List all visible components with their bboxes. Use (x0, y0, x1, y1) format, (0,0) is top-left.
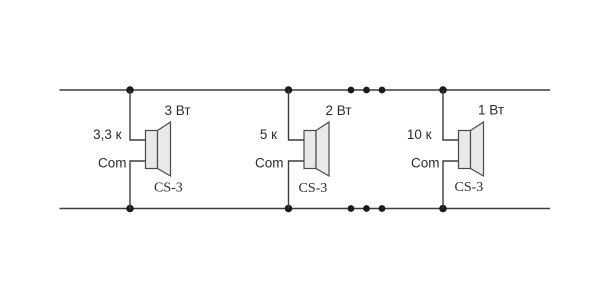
node junction bottom 3 (439, 205, 447, 213)
wire speaker1 bottom drop (130, 161, 146, 209)
svg-text:Com: Com (98, 156, 127, 171)
svg-text:10 к: 10 к (407, 127, 432, 142)
node junction bottom 2 (285, 205, 293, 213)
svg-text:CS-3: CS-3 (455, 180, 484, 195)
continuation dots top bus (348, 87, 386, 94)
loudspeaker LS1 CS-3 (146, 122, 171, 176)
loudspeaker LS2 CS-3 (304, 122, 329, 176)
svg-text:CS-3: CS-3 (154, 181, 183, 196)
wire speaker3 top drop (443, 90, 459, 140)
svg-text:CS-3: CS-3 (299, 181, 328, 196)
svg-text:2 Вт: 2 Вт (326, 103, 352, 118)
wire speaker2 top drop (289, 90, 305, 140)
node junction top 1 (126, 86, 134, 94)
wire speaker1 top drop (130, 90, 146, 140)
wire top bus (60, 89, 551, 91)
wire speaker2 bottom drop (289, 161, 305, 209)
wire bottom bus (60, 208, 551, 210)
wire speaker3 bottom drop (443, 161, 459, 209)
svg-text:3,3 к: 3,3 к (93, 127, 122, 142)
node junction top 3 (439, 86, 447, 94)
node junction bottom 1 (126, 205, 134, 213)
continuation dots bottom bus (348, 205, 386, 212)
svg-text:Com: Com (411, 156, 440, 171)
loudspeaker LS3 CS-3 (459, 122, 484, 176)
svg-text:1 Вт: 1 Вт (478, 103, 504, 118)
svg-text:3 Вт: 3 Вт (165, 103, 191, 118)
svg-text:Com: Com (255, 156, 284, 171)
node junction top 2 (285, 86, 293, 94)
svg-text:5 к: 5 к (260, 127, 277, 142)
